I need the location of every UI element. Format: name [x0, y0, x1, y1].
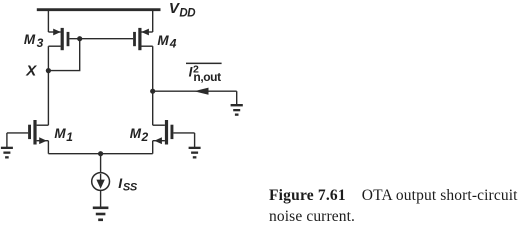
svg-text:1: 1 — [66, 130, 73, 144]
svg-text:2: 2 — [141, 130, 149, 144]
svg-text:M: M — [130, 126, 142, 141]
svg-text:SS: SS — [123, 182, 138, 194]
svg-text:DD: DD — [179, 7, 195, 19]
svg-text:I: I — [189, 65, 193, 80]
svg-text:M: M — [157, 33, 169, 48]
svg-text:3: 3 — [37, 36, 44, 50]
svg-text:M: M — [54, 126, 66, 141]
svg-text:M: M — [24, 32, 36, 47]
svg-text:X: X — [25, 63, 37, 80]
svg-text:n,out: n,out — [193, 70, 221, 84]
svg-text:4: 4 — [169, 37, 177, 51]
